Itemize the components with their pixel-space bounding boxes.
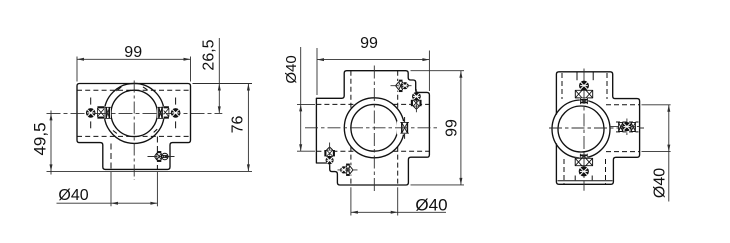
view1 stem screw head (162, 153, 169, 160)
view1 right clamp screw head (171, 109, 180, 118)
view2 screw left arm shank (324, 149, 335, 157)
view2 screw bottom arm head (341, 167, 347, 173)
view3 bottom screw slit (580, 154, 588, 160)
view3 hidden stub bore lines (606, 104, 640, 106)
view3 centerline horizontal (549, 127, 644, 129)
view2 screw left arm head (326, 157, 333, 164)
view1 right clamp screw slit (157, 107, 163, 120)
view3 bottom screw head (579, 167, 588, 176)
svg-text:49,5: 49,5 (30, 122, 49, 155)
view2 hidden bore lines vertical arm (350, 71, 352, 109)
view1 dimension 26,5 line (218, 38, 220, 113)
view2 screw top arm tip (395, 81, 399, 91)
view2 screw top arm head (402, 83, 408, 89)
view2 clamp ring outer circle (344, 98, 404, 158)
view1 dimension 99 extension lines (76, 57, 78, 82)
view3 stub screw lug right (631, 122, 635, 131)
svg-text:99: 99 (360, 35, 378, 52)
view2 dimension diameter 40 bottom extension lines (350, 187, 352, 215)
view2 screw right arm shank (411, 99, 422, 107)
view1 ring chamfer tick upper-left (116, 87, 121, 91)
view2 dimension diameter 40 bottom line (351, 211, 446, 213)
view2 dimension 99 right line (460, 71, 462, 185)
view3 hidden bore verticals (561, 73, 563, 99)
view1 dimension 76 line (247, 84, 249, 172)
svg-text:Ø40: Ø40 (58, 187, 88, 204)
view2 screw bottom arm centerline (338, 169, 358, 171)
view2 screw right arm centerline (415, 89, 417, 114)
view3 top screw head (580, 81, 589, 90)
view2 screw top arm shank (398, 80, 403, 92)
svg-text:Ø40: Ø40 (415, 195, 447, 214)
view1 dimension 76 extension bottom (47, 170, 253, 172)
view3 centerline vertical (583, 69, 585, 191)
view1 dimension diameter 40 line (57, 202, 158, 204)
view1 left clamp screw head (86, 109, 95, 118)
view1 dimension 99 line (77, 58, 191, 60)
view2 dimension 99 top extension lines (316, 48, 318, 95)
view2 dimension diameter 40 left line (300, 47, 302, 151)
view1 right clamp screw shank (161, 106, 169, 118)
view1 hidden bore line bottom (77, 135, 191, 137)
view3 stub screw head (623, 123, 631, 131)
view2 centerline horizontal (305, 127, 437, 129)
view1 left clamp screw head stem lines (90, 98, 92, 105)
view3 stub screw slot edges (616, 121, 639, 123)
view2 clamp bore circle (351, 104, 398, 151)
view1 hidden stem bore right (156, 137, 158, 170)
view3 clamp bore circle (558, 106, 604, 152)
view1 body outline (77, 84, 191, 170)
view1 clamp ring outer circle (104, 83, 164, 143)
view1 ring chamfer tick upper-right (143, 87, 147, 90)
view3 top screw slit (580, 98, 588, 104)
view3 body outline (556, 72, 639, 185)
view1 hidden stem bore left (110, 144, 112, 170)
svg-text:99: 99 (124, 44, 142, 61)
view2 screw bottom arm shank (346, 164, 351, 176)
view1 dimension 26,5 extension top (193, 83, 253, 85)
view3 top screw shank (575, 90, 593, 99)
view1 dimension diameter 40 extension lines (110, 172, 112, 206)
view1 right clamp screw head stem lines (175, 98, 177, 105)
view3 bottom screw shank (575, 158, 593, 166)
view2 clamp slit notch (397, 121, 411, 134)
view1 centerline vertical (133, 81, 135, 181)
view1 ring chamfer tick lower-right (154, 129, 158, 132)
svg-text:99: 99 (443, 119, 460, 137)
view3 stub screw lug left (619, 122, 623, 131)
view2 body outline (316, 71, 429, 185)
view3 dimension diameter 40 line (668, 105, 670, 202)
view1 hidden bore line top (77, 89, 191, 91)
view2 screw bottom arm tip (350, 165, 354, 174)
view1 ring chamfer tick lower-left (113, 131, 117, 134)
svg-text:76: 76 (229, 115, 246, 133)
view2 screw top arm centerline (391, 85, 412, 87)
view2 screw right arm tip (413, 106, 420, 110)
view1 stem screw centerline (148, 156, 177, 158)
view3 lug lines bottom (574, 176, 576, 181)
view2 centerline vertical (373, 66, 375, 192)
view3 clamp ring outer circle (552, 100, 610, 158)
view2 screw right arm head (413, 93, 421, 101)
view1 stem screw shank (156, 151, 162, 162)
view3 lug lines top (576, 72, 578, 80)
svg-text:Ø40: Ø40 (652, 168, 669, 198)
view3 bottom chamfer line (558, 180, 613, 182)
view1 stem screw tip (154, 153, 157, 160)
view3 dimension diameter 40 extension lines (642, 104, 671, 106)
svg-text:Ø40: Ø40 (283, 55, 300, 83)
view1 centerline horizontal (47, 112, 223, 114)
view2 screw left arm tip (326, 145, 333, 150)
view1 clamp bore circle (111, 90, 157, 136)
svg-text:26,5: 26,5 (201, 39, 218, 70)
view1 dimension 49,5 line (50, 111, 52, 175)
view2 dimension 99 right extension lines (411, 70, 465, 72)
view2 screw left arm centerline (329, 143, 331, 167)
view3 stub screw centerline (610, 126, 640, 128)
view2 hidden bore lines horizontal arm (316, 103, 355, 105)
view1 left clamp screw slit (105, 107, 111, 120)
view2 dimension diameter 40 left extension lines (297, 103, 315, 105)
view2 dimension 99 top line (317, 59, 429, 61)
view1 left clamp screw shank (97, 106, 105, 118)
